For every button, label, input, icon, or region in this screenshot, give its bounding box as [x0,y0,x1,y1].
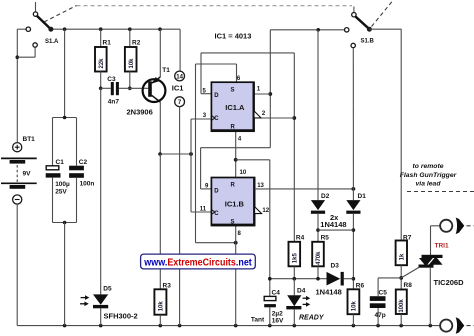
wire D rail pin5 pin2 [201,53,296,242]
svg-text:47p: 47p [375,312,386,319]
triac TRI1 TIC206D [401,226,464,326]
wire right rail to S1.B [270,28,344,32]
svg-text:10k: 10k [129,58,135,69]
svg-text:S: S [231,87,235,93]
wire T1 collector node to clock [158,152,193,156]
svg-text:100n: 100n [80,181,95,188]
wire top rail [51,27,180,71]
svg-text:C2: C2 [79,159,88,166]
output terminal upper [431,218,474,235]
resistor R5 [312,234,329,278]
svg-text:C1: C1 [56,159,65,166]
IC1.B inverted output triangle pin12 [255,207,262,214]
svg-text:100k: 100k [399,299,405,313]
svg-text:R4: R4 [296,234,305,241]
svg-text:D4: D4 [297,287,306,294]
photodiode D5 SFH300-2 [80,88,138,325]
svg-text:D: D [214,188,219,194]
output terminal lower [440,317,474,334]
svg-text:22k: 22k [99,58,105,69]
svg-text:1N4148: 1N4148 [320,220,346,229]
svg-text:2N3906: 2N3906 [127,107,153,116]
svg-text:16V: 16V [272,317,284,324]
svg-text:D2: D2 [321,193,330,200]
svg-text:TRI1: TRI1 [435,242,449,249]
svg-text:R2: R2 [132,40,141,47]
svg-text:D3: D3 [331,263,340,270]
svg-text:100µ: 100µ [55,181,70,188]
svg-text:S1.B: S1.B [361,39,375,45]
svg-text:4n7: 4n7 [108,99,120,106]
resistor R7 [396,29,412,289]
wire left rail [15,29,35,143]
svg-text:R1: R1 [103,40,112,47]
svg-text:www.ExtremeCircuits.net: www.ExtremeCircuits.net [143,257,252,268]
capacitor C5 [370,278,401,326]
IC1 = 4013 label [215,32,252,41]
svg-text:Flash GunTrigger: Flash GunTrigger [400,172,457,179]
IC1.A pin numbers [203,76,266,143]
resistor R8 [396,282,412,326]
resistor R4 [289,234,305,278]
svg-text:C: C [214,116,219,122]
svg-text:BT1: BT1 [23,136,36,143]
wire pin13 line to D1 [255,187,356,191]
flip-flop IC1.A [211,82,254,131]
svg-text:READY: READY [299,315,325,322]
diode D3 1N4148 [316,263,354,297]
svg-text:IC1.A: IC1.A [225,103,245,112]
wire clock net pin3 pin11 [191,119,211,212]
svg-text:12: 12 [262,208,269,214]
svg-text:14: 14 [176,74,183,80]
svg-text:C4: C4 [272,289,281,296]
capacitor C3 [101,76,149,106]
svg-text:10k: 10k [351,301,357,312]
svg-text:T1: T1 [162,67,170,74]
resistor R2 [125,29,141,90]
svg-text:R: R [231,125,236,131]
svg-text:SFH300-2: SFH300-2 [104,312,138,321]
wire S1.B lower contact down to D1 [352,48,354,189]
resistor R6 [348,282,365,325]
IC1 power pin circles [172,71,185,326]
svg-text:25V: 25V [55,189,67,196]
svg-text:11: 11 [200,207,207,213]
transistor T1 2N3906 [127,29,171,154]
diode D1 1N4148 [318,189,366,289]
svg-text:S1.A: S1.A [45,39,59,45]
svg-text:9V: 9V [23,171,32,178]
svg-text:D5: D5 [103,285,112,292]
battery BT1 [1,136,37,326]
svg-text:to remote: to remote [413,163,444,170]
resistor R1 [95,29,111,90]
svg-text:1k: 1k [399,253,405,260]
IC1.A inverted output triangle pin2 [254,111,261,118]
flip-flop IC1.B [211,178,255,226]
svg-text:D1: D1 [358,193,367,200]
svg-text:C5: C5 [379,289,388,296]
svg-text:1k5: 1k5 [293,253,299,264]
svg-text:Tant: Tant [251,317,265,324]
svg-text:10: 10 [240,170,247,176]
LED D4 READY [286,279,325,326]
svg-text:2µ2: 2µ2 [272,310,283,317]
mechanical link dashed line S1.A to S1.B [44,1,393,27]
wire pin1 Q to pin9 D link [201,30,273,189]
svg-text:1N4148: 1N4148 [316,288,342,297]
svg-text:10k: 10k [158,301,164,312]
svg-text:IC1 = 4013: IC1 = 4013 [215,32,252,41]
wire C1 C2 branch [53,29,77,325]
capacitor C2 [69,159,94,188]
resistor R3 [154,154,171,326]
svg-text:13: 13 [257,183,264,189]
svg-text:470k: 470k [316,251,322,265]
svg-text:C3: C3 [107,76,116,83]
wire bottom rail [17,324,440,328]
svg-text:R6: R6 [356,282,365,289]
IC1.B pin numbers [200,170,270,237]
capacitor C4 tantalum [251,289,284,325]
svg-text:R: R [231,183,236,189]
svg-text:R5: R5 [321,234,330,241]
to remote Flash GunTrigger via lead note [400,163,474,192]
svg-text:S: S [231,219,235,225]
svg-text:R8: R8 [404,282,413,289]
switch S1.A [26,2,59,47]
svg-text:IC1: IC1 [172,84,184,93]
wire set pins ground net [196,64,238,326]
www.ExtremeCircuits.net box [141,254,256,269]
svg-text:via lead: via lead [416,181,442,188]
diode D2 1N4148 [311,30,330,242]
svg-text:TIC206D: TIC206D [434,278,465,287]
svg-text:D: D [214,93,219,99]
wire reset pins to C4 [234,131,270,296]
svg-text:IC1.B: IC1.B [225,199,245,208]
switch S1.B [345,7,402,48]
capacitor C1 [46,159,70,196]
wire ready node line [268,277,327,281]
